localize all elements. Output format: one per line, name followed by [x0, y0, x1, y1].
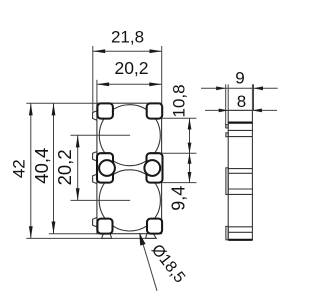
svg-text:21,8: 21,8	[111, 27, 144, 46]
svg-text:9,4: 9,4	[168, 186, 188, 211]
svg-text:20,2: 20,2	[114, 58, 148, 78]
svg-text:9: 9	[235, 69, 244, 88]
svg-text:8: 8	[237, 92, 246, 111]
svg-text:40,4: 40,4	[31, 148, 52, 184]
svg-text:42: 42	[10, 159, 29, 178]
svg-text:20,2: 20,2	[54, 149, 75, 185]
svg-text:10,8: 10,8	[169, 84, 188, 117]
